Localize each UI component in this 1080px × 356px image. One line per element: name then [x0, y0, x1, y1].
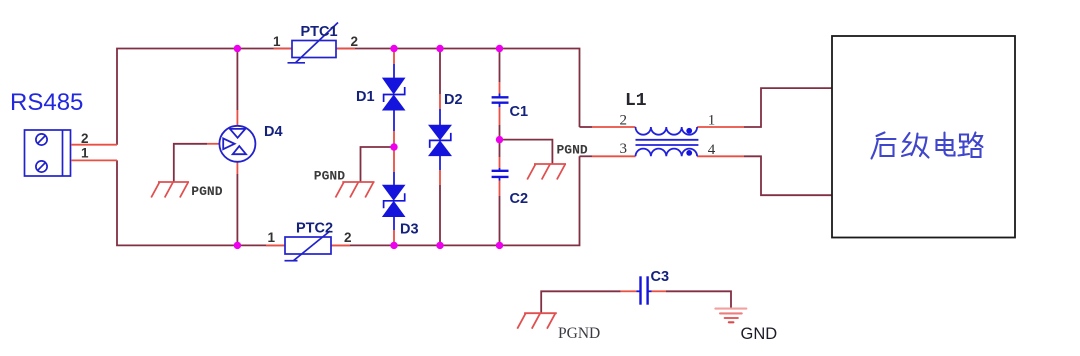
svg-text:2: 2	[351, 34, 359, 49]
级	[902, 133, 929, 158]
svg-text:C3: C3	[651, 269, 670, 285]
junction dots	[234, 45, 504, 249]
svg-text:GND: GND	[741, 325, 778, 343]
电	[937, 133, 955, 156]
svg-text:D2: D2	[444, 92, 463, 108]
C3 left pin	[621, 290, 637, 292]
svg-text:PGND: PGND	[558, 325, 600, 342]
wire L1 pin1 to box	[744, 88, 832, 127]
capacitor C1	[492, 49, 509, 140]
svg-text:C1: C1	[510, 104, 529, 120]
svg-text:RS485: RS485	[10, 89, 83, 116]
svg-text:PTC2: PTC2	[296, 221, 333, 237]
text 后级电路 (drawn strokes)	[872, 133, 983, 159]
wire bottom rail	[117, 156, 580, 245]
svg-text:1: 1	[273, 34, 281, 49]
connector J1 body	[25, 130, 71, 176]
diode D3 (bidirectional TVS)	[382, 147, 406, 245]
L1 pin numbers	[620, 112, 716, 158]
inductor L1 pins	[580, 127, 593, 156]
diode D4 (TVS array)	[207, 49, 255, 246]
后	[872, 133, 896, 159]
inductor L1 body	[636, 127, 699, 156]
svg-text:2: 2	[620, 112, 628, 128]
svg-text:1: 1	[708, 112, 716, 128]
svg-text:C2: C2	[510, 191, 529, 207]
power PGND (D4)	[151, 182, 189, 198]
svg-text:4: 4	[708, 142, 716, 158]
svg-text:PTC1: PTC1	[301, 24, 338, 40]
wire top rail	[117, 49, 580, 145]
C3 right pin	[649, 290, 652, 292]
box rear-stage circuit	[832, 36, 1015, 238]
diode D2 (bidirectional TVS)	[428, 49, 452, 246]
svg-text:3: 3	[620, 141, 628, 157]
connector pin 2	[71, 144, 117, 146]
diode D1 (bidirectional TVS)	[382, 49, 406, 148]
power PGND (D1/D3)	[336, 182, 375, 198]
wire C3 to GND	[666, 291, 731, 308]
wire mid node D1/D3 to PGND	[361, 147, 395, 182]
capacitor C3	[641, 276, 648, 304]
svg-text:D1: D1	[356, 89, 375, 105]
ground GND symbol	[715, 309, 746, 323]
resistor PTC2	[266, 231, 350, 261]
capacitor C2	[492, 140, 509, 246]
svg-text:2: 2	[344, 230, 352, 245]
svg-text:PGND: PGND	[191, 184, 222, 199]
L1 polarity dots	[686, 128, 692, 134]
svg-text:PGND: PGND	[314, 168, 345, 183]
svg-text:PGND: PGND	[557, 142, 588, 157]
power PGND (C node)	[527, 164, 566, 180]
resistor PTC1	[274, 23, 355, 63]
svg-text:D3: D3	[400, 222, 419, 238]
connector pin 1	[71, 159, 117, 161]
svg-text:2: 2	[81, 131, 89, 146]
wire D4 to PGND	[174, 144, 207, 182]
路	[959, 133, 983, 158]
wire C node to PGND	[500, 140, 553, 164]
wire PGND to C3	[541, 291, 620, 313]
svg-text:L1: L1	[625, 91, 647, 111]
power PGND (C3)	[517, 313, 557, 329]
wire L1 pin4 to box	[744, 156, 832, 195]
svg-text:1: 1	[81, 146, 89, 161]
svg-text:D4: D4	[264, 124, 283, 140]
svg-text:1: 1	[268, 230, 276, 245]
